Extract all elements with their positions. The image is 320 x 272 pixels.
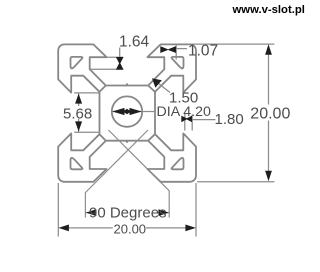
slot cavity centre tick, top slot xyxy=(126,84,128,86)
dim 1.07 leader xyxy=(176,48,187,50)
bottom dim 20.00 left arrowhead xyxy=(58,225,69,232)
svg-text:5.68: 5.68 xyxy=(63,105,92,122)
dia 4.20 left arrowhead xyxy=(112,108,124,115)
hub corner chamfer top-right xyxy=(148,86,155,92)
90 degree construction line, left leg xyxy=(85,130,148,218)
dim 90 degrees right arrowhead xyxy=(159,209,169,216)
90 degree construction line, right leg xyxy=(108,130,169,218)
svg-text:1.80: 1.80 xyxy=(215,111,244,128)
dia 4.20 line through bore xyxy=(112,111,142,113)
dim 1.64 upper extension line xyxy=(107,56,124,58)
svg-text:DIA 4.20: DIA 4.20 xyxy=(157,104,212,120)
dim 1.50 arrowhead xyxy=(152,78,162,88)
right dim 20.00 dimension line upper segment xyxy=(268,53,270,105)
bottom dim 20.00 dimension line left segment xyxy=(67,227,113,229)
dim 1.07 extension tick xyxy=(175,45,177,60)
bottom dim 20.00 left extension line xyxy=(57,183,59,237)
dim 5.68 up arrowhead xyxy=(75,94,82,104)
hub corner chamfer bottom-left xyxy=(100,134,106,141)
svg-text:1.64: 1.64 xyxy=(119,33,150,50)
dim 1.50 leader xyxy=(154,80,170,93)
right dim 20.00 bottom extension line xyxy=(197,181,274,183)
svg-text:20.00: 20.00 xyxy=(114,222,147,237)
hub corner chamfer bottom-right xyxy=(148,134,155,141)
right dim 20.00 top extension line xyxy=(191,43,274,45)
extrusion profile outline (V-slot 2020 cross-section with four T/V slots) xyxy=(58,44,196,181)
dim 5.68 upper extension line xyxy=(74,92,99,94)
bottom dim 20.00 right arrowhead xyxy=(185,225,196,232)
svg-text:90 Degrees: 90 Degrees xyxy=(89,204,167,221)
dim 90 degrees left line stub xyxy=(86,212,97,214)
dim 1.64 lower extension line xyxy=(90,68,124,70)
dim 5.68 down arrowhead xyxy=(75,121,82,131)
dia 4.20 right arrowhead xyxy=(130,108,142,115)
bottom dim 20.00 dimension line right segment xyxy=(146,227,187,229)
dim 5.68 lower extension line xyxy=(74,131,99,133)
svg-text:www.v-slot.pl: www.v-slot.pl xyxy=(232,4,305,16)
svg-text:20.00: 20.00 xyxy=(250,106,290,123)
center bore circle (DIA 4.20) xyxy=(112,96,142,126)
bottom dim 20.00 right extension line xyxy=(195,183,197,237)
dim 1.64 double arrowheads xyxy=(116,57,124,70)
hub corner chamfer top-left xyxy=(100,86,106,92)
dim 90 degrees left arrowhead xyxy=(86,209,96,216)
dim 1.80 left extension line xyxy=(184,114,186,131)
dim 5.68 dimension line upper segment xyxy=(78,93,80,106)
right dim 20.00 down arrowhead xyxy=(265,171,272,181)
dia 4.20 leader xyxy=(142,111,156,113)
dim 1.80 right extension line xyxy=(191,115,193,131)
dim 1.64 leader xyxy=(119,48,121,58)
corner cutout top-right xyxy=(172,57,184,69)
dim 1.80 leader xyxy=(192,119,215,121)
corner cutout bottom-right xyxy=(172,158,184,170)
dim 1.80 double arrowheads xyxy=(181,116,192,122)
slot cavity centre tick, bottom slot xyxy=(126,141,128,143)
right dim 20.00 dimension line lower segment xyxy=(268,121,270,173)
right dim 20.00 up arrowhead xyxy=(265,44,272,54)
svg-text:1.07: 1.07 xyxy=(188,43,218,60)
dia 4.20 centre diamond xyxy=(123,109,131,115)
corner cutout top-left xyxy=(71,57,83,69)
dim 5.68 dimension line lower segment xyxy=(78,119,80,133)
dim 90 degrees right line stub xyxy=(159,212,169,214)
dim 1.07 double arrowheads xyxy=(160,46,176,53)
corner cutout bottom-left xyxy=(71,158,83,170)
